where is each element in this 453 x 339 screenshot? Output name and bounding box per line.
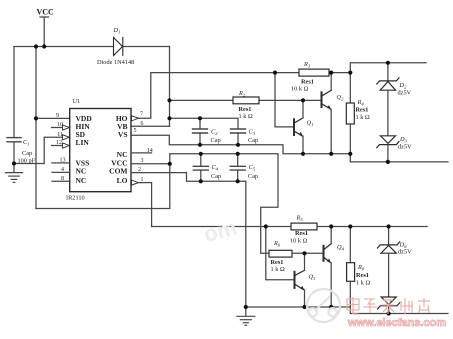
node pin3 VCC tap	[168, 162, 172, 166]
wire pin9 VDD	[36, 117, 70, 119]
node R8 top	[348, 224, 352, 228]
svg-text:www.elecfans.com: www.elecfans.com	[347, 317, 446, 329]
svg-text:dz5V: dz5V	[398, 143, 412, 150]
watermark red CJK 电子发烧友	[347, 297, 430, 314]
node D2 rail top	[386, 61, 390, 65]
svg-text:VCC: VCC	[37, 8, 55, 17]
wire bottom VCC rail to pin3	[36, 164, 170, 209]
node R4 top	[348, 71, 352, 75]
svg-text:7: 7	[140, 112, 143, 118]
svg-text:Res1: Res1	[356, 272, 369, 279]
ground GND1	[6, 173, 23, 183]
svg-text:9: 9	[56, 113, 59, 119]
capacitor C4	[200, 154, 202, 167]
wire pin3 VCC	[131, 163, 170, 165]
resistor R3	[299, 69, 329, 76]
node C4 top	[199, 152, 203, 156]
svg-text:VS: VS	[118, 130, 128, 139]
node C5 top	[236, 152, 240, 156]
node boot R2 tap	[167, 98, 171, 102]
wire R6 out to Q4 base	[292, 252, 324, 254]
pin arrows into IC	[63, 125, 70, 148]
svg-text:LIN: LIN	[76, 138, 90, 147]
svg-text:3: 3	[141, 158, 144, 164]
wire Q3 base branch	[266, 227, 295, 280]
wire pin6 VB	[131, 125, 170, 127]
transistor Q3	[295, 270, 305, 290]
svg-text:100 pF: 100 pF	[18, 158, 36, 165]
svg-text:10: 10	[57, 122, 63, 128]
pin7 HO arrow	[132, 116, 139, 121]
resistor R8	[349, 227, 351, 263]
node Q4 collector tap	[329, 224, 333, 228]
svg-text:Res1: Res1	[356, 107, 369, 114]
capacitor C2	[199, 118, 201, 129]
svg-text:14: 14	[147, 148, 153, 154]
node Q2 collector tap	[329, 71, 333, 75]
zener D3	[377, 136, 399, 148]
resistor R4	[349, 73, 351, 103]
svg-text:Cap: Cap	[211, 137, 221, 144]
zener D2	[387, 63, 389, 81]
node VB junction	[167, 116, 171, 120]
node Q2 emitter	[329, 152, 333, 156]
power VCC symbol	[40, 16, 49, 18]
svg-text:Res1: Res1	[301, 79, 314, 86]
IC U1 IR2110	[70, 109, 131, 192]
node D4 rail top	[387, 224, 391, 228]
diode D1	[114, 38, 123, 56]
pin1 LO arrow	[132, 180, 139, 185]
node HO Q1 base tap	[273, 71, 277, 75]
svg-text:dz5V: dz5V	[398, 90, 412, 97]
node Q1 emitter	[301, 152, 305, 156]
wire pin7 HO riser	[139, 73, 300, 119]
node D5 rail bottom	[387, 311, 391, 315]
svg-text:LO: LO	[117, 176, 128, 185]
wire diode to boot junction riser	[169, 47, 171, 127]
watermark gray logo circle	[307, 289, 340, 322]
svg-text:Res1: Res1	[295, 230, 308, 237]
ground GND2	[245, 307, 247, 316]
node VDD pin9	[34, 116, 38, 120]
resistor R6	[269, 250, 292, 257]
node Q4 emitter	[329, 305, 333, 309]
svg-text:Res1: Res1	[239, 106, 252, 113]
svg-text:11: 11	[57, 132, 63, 138]
zener D4	[388, 227, 390, 245]
wire pin2 COM to C4C5 bottoms to ground	[131, 173, 246, 307]
svg-text:5: 5	[134, 128, 137, 134]
svg-text:COM: COM	[109, 167, 127, 176]
svg-text:Res1: Res1	[271, 259, 284, 266]
zener D5	[378, 297, 400, 309]
node R4 bottom	[348, 152, 352, 156]
svg-text:Cap: Cap	[211, 173, 221, 180]
svg-text:1 k Ω: 1 k Ω	[239, 113, 253, 120]
wire pin1 LO down	[139, 183, 152, 227]
wire C4C5 top line from pin3	[170, 154, 278, 254]
wire R2 line	[170, 99, 234, 101]
wire Q1 base riser	[275, 73, 294, 127]
node C2 top	[198, 116, 202, 120]
svg-text:2: 2	[138, 167, 141, 173]
node ground rail	[244, 305, 248, 309]
svg-text:NC: NC	[76, 176, 87, 185]
svg-text:IR2110: IR2110	[66, 195, 85, 202]
wire VDD riser down to bottom rail	[35, 47, 37, 209]
capacitor C1	[7, 138, 21, 142]
wire pin5 VS to C2C3 bottom line	[131, 135, 448, 162]
svg-text:8: 8	[61, 176, 64, 182]
svg-text:4: 4	[61, 167, 64, 173]
resistor R2	[233, 97, 259, 104]
wire C2C3 top line	[170, 118, 239, 129]
node SD-ground tie	[12, 161, 16, 165]
resistor R5	[291, 223, 317, 230]
node C4 bottom	[199, 179, 203, 183]
transistor Q2	[322, 90, 332, 109]
svg-text:Cap: Cap	[22, 150, 32, 157]
node Q1 collector R2	[301, 98, 305, 102]
wire LO rail through R5	[152, 226, 291, 228]
node VCC top junctions	[34, 44, 38, 48]
svg-text:U1: U1	[73, 98, 81, 105]
svg-text:Cap: Cap	[248, 173, 258, 180]
svg-text:1 k Ω: 1 k Ω	[271, 266, 285, 273]
pin stubs right	[131, 152, 152, 154]
svg-text:1 k Ω: 1 k Ω	[356, 280, 370, 287]
node C2 bottom	[198, 143, 202, 147]
svg-text:1 k Ω: 1 k Ω	[356, 114, 370, 121]
node LO Q3 base tap	[264, 224, 268, 228]
svg-text:dz5V: dz5V	[398, 249, 412, 256]
svg-text:10 k Ω: 10 k Ω	[290, 238, 308, 245]
wire left rail down to C1	[13, 47, 15, 138]
capacitor C5	[237, 154, 239, 167]
svg-text:Cap: Cap	[248, 137, 258, 144]
node D3 rail bottom	[386, 160, 390, 164]
wire SD to ground	[14, 137, 63, 163]
wire bottom emitter rail	[246, 307, 448, 314]
svg-text:13: 13	[60, 158, 66, 164]
node C5 bottom	[236, 179, 240, 183]
node Q3 collector R6	[302, 251, 306, 255]
wire R3 out to top right	[329, 63, 426, 73]
svg-text:Diode 1N4148: Diode 1N4148	[97, 59, 134, 66]
svg-text:6: 6	[141, 121, 144, 127]
transistor Q4	[324, 244, 332, 263]
svg-text:NC: NC	[76, 167, 87, 176]
node C3 bottom	[236, 143, 240, 147]
svg-text:10 k Ω: 10 k Ω	[291, 86, 309, 93]
wire top VCC rail	[14, 46, 114, 48]
svg-text:12: 12	[56, 140, 62, 146]
transistor Q1	[294, 118, 303, 137]
svg-text:1: 1	[141, 177, 144, 183]
pin stubs left	[52, 127, 63, 129]
capacitor C3	[231, 129, 246, 133]
node Q3 emitter	[302, 305, 306, 309]
